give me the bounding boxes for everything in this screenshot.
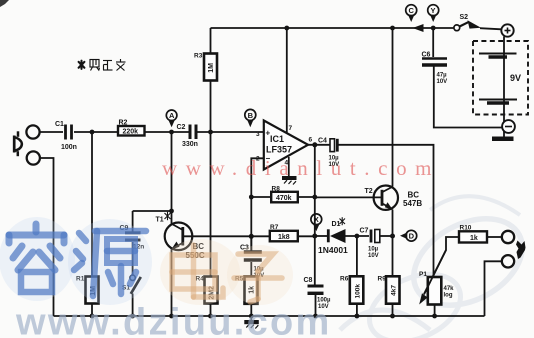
svg-text:1M: 1M <box>90 286 97 296</box>
output jack bottom circle <box>502 255 514 267</box>
svg-text:R9: R9 <box>378 276 387 283</box>
resistor R10 <box>459 231 487 242</box>
junction C1/R1/R2 <box>90 130 95 135</box>
wire node Y / C6 top <box>432 28 434 57</box>
svg-text:R6: R6 <box>340 276 349 283</box>
svg-text:LF357: LF357 <box>266 145 292 155</box>
capacitor C9 <box>125 233 141 240</box>
svg-text:R4: R4 <box>196 276 205 283</box>
watermark blue char 容 <box>9 224 64 292</box>
junction node A R2/C2/T1 collector <box>169 130 174 135</box>
junction R6/ground rail <box>355 314 360 319</box>
ground symbol below R5 <box>245 316 258 329</box>
wire input jack top to C1 <box>40 131 64 133</box>
svg-text:1M: 1M <box>208 63 215 73</box>
output arrow <box>516 241 526 260</box>
watermark blue char 源 <box>74 231 146 296</box>
svg-text:R3: R3 <box>194 53 203 60</box>
junction R5/ground rail <box>249 314 254 319</box>
junction R8/T2 base <box>312 195 317 200</box>
input jack arrow <box>14 131 22 156</box>
wire T1 collector up to node A <box>171 132 173 224</box>
wire bottom jack to ground rail <box>40 158 54 316</box>
resistor R5 <box>245 276 258 303</box>
junction T1 emitter/ground rail <box>169 314 174 319</box>
svg-text:R1: R1 <box>76 276 85 283</box>
op-amp pin4 wire and ground <box>288 157 290 177</box>
node B marker <box>245 109 256 127</box>
wire P1 bottom to rail <box>434 305 436 317</box>
battery ground bar <box>492 137 514 142</box>
wire P1 wiper to R10 <box>424 237 462 294</box>
node C marker <box>406 5 417 22</box>
svg-text:B: B <box>248 111 254 120</box>
wire R3 top <box>210 28 212 54</box>
watermark tan char 子 <box>234 254 282 302</box>
svg-text:2M2: 2M2 <box>209 286 216 300</box>
corner mark <box>0 0 9 7</box>
capacitor C3 <box>244 252 262 260</box>
battery cell 2 <box>479 100 517 104</box>
wire op-amp pin 7 to supply <box>286 28 288 134</box>
svg-text:T1: T1 <box>156 217 164 224</box>
watermark tan char 电 <box>172 245 223 297</box>
wire R6 top branch <box>356 236 358 276</box>
svg-text:C8: C8 <box>304 277 313 284</box>
battery cell 1 <box>479 54 517 58</box>
transistor T1 BC550C <box>165 223 193 251</box>
wire C7 right to T2 emitter <box>381 235 393 237</box>
capacitor C4 <box>330 139 337 152</box>
resistor R1 <box>86 277 99 304</box>
svg-text:T2: T2 <box>365 188 373 195</box>
svg-text:47µ: 47µ <box>437 73 448 79</box>
svg-text:4k7: 4k7 <box>391 285 398 296</box>
capacitor C1 <box>66 125 72 140</box>
footnote star <box>79 61 85 69</box>
svg-text:log: log <box>444 293 453 299</box>
wire R2 to C2 <box>145 131 189 133</box>
svg-text:C9: C9 <box>120 225 129 232</box>
svg-text:6: 6 <box>309 137 313 144</box>
svg-text:C4: C4 <box>318 138 327 145</box>
junction T2 collector/supply rail <box>390 26 395 31</box>
node A marker <box>166 110 177 127</box>
node X marker <box>311 214 322 231</box>
ground rail <box>54 315 485 317</box>
svg-text:10V: 10V <box>329 162 340 168</box>
svg-text:C: C <box>409 6 415 15</box>
input jack bottom circle <box>27 151 40 164</box>
wire battery internal column <box>503 37 505 138</box>
svg-text:1k8: 1k8 <box>278 234 290 241</box>
svg-text:2: 2 <box>256 156 260 163</box>
junction S1/ground rail <box>130 314 135 319</box>
capacitor C8 <box>308 286 324 293</box>
svg-text:R8: R8 <box>272 186 281 193</box>
diode D1 <box>328 229 345 243</box>
resistor R6 <box>350 276 364 303</box>
resistor R7 <box>270 231 298 242</box>
wire C6 bottom to battery minus <box>434 67 504 128</box>
svg-text:10µ: 10µ <box>254 267 265 273</box>
battery plus terminal <box>501 24 513 36</box>
wire R5 bottom to rail <box>250 304 252 316</box>
watermark blue glow patches <box>0 217 293 305</box>
wire S1 bottom to rail <box>132 294 134 317</box>
wire C9 bottom to S1 <box>132 242 134 275</box>
svg-text:10V: 10V <box>318 304 329 310</box>
svg-text:1k: 1k <box>249 286 256 294</box>
svg-text:220k: 220k <box>123 129 139 136</box>
svg-text:BC: BC <box>193 242 205 251</box>
svg-text:7: 7 <box>289 125 293 132</box>
junction D1 anode/R6 <box>355 234 360 239</box>
junction C9/T1 collector line <box>169 209 174 214</box>
wire D1 anode to C7 <box>346 235 370 237</box>
wire T2 base <box>315 196 382 198</box>
wire C8 top <box>314 236 316 285</box>
svg-text:1N4001: 1N4001 <box>318 245 348 255</box>
node C arrowhead on wire <box>413 24 424 32</box>
input jack top circle <box>26 125 39 138</box>
wire C9 branch horizontal <box>133 210 172 212</box>
svg-text:S1: S1 <box>122 285 130 292</box>
svg-text:R10: R10 <box>460 225 472 232</box>
svg-text:R2: R2 <box>119 119 128 126</box>
wire T2 collector to supply <box>392 28 394 187</box>
svg-text:10µ: 10µ <box>329 156 340 162</box>
node Y marker <box>428 5 439 22</box>
svg-text:D1: D1 <box>332 221 341 228</box>
wire R3 bottom to node, down to R4, R4 to rail <box>210 81 212 133</box>
junction C8/ground rail <box>313 314 318 319</box>
resistor R4 <box>205 277 218 304</box>
svg-text:4: 4 <box>285 160 289 167</box>
svg-text:470k: 470k <box>276 195 292 202</box>
junction node Y C6/supply rail <box>431 26 436 31</box>
svg-text:R5: R5 <box>235 276 244 283</box>
resistor R2 <box>118 126 145 136</box>
wire output column down <box>314 145 316 236</box>
junction R4/ground rail <box>208 314 213 319</box>
wire R8 right <box>298 196 315 198</box>
svg-text:A: A <box>169 111 175 120</box>
svg-text:−: − <box>266 154 271 163</box>
op-amp IC1 LF357 <box>264 121 308 170</box>
node D marker <box>400 230 417 241</box>
svg-text:100n: 100n <box>61 144 77 151</box>
svg-text:C6: C6 <box>422 52 431 59</box>
junction T1 base/R7/C3 <box>249 234 254 239</box>
wire S2 to battery plus <box>480 28 501 29</box>
resistor R8 <box>271 192 298 203</box>
wire R8 left <box>251 196 271 198</box>
battery minus terminal <box>502 120 515 133</box>
svg-text:C7: C7 <box>360 228 369 235</box>
svg-text:10V: 10V <box>437 79 448 85</box>
wire rail right end up to output jack bottom <box>485 261 502 316</box>
resistor R3 <box>204 54 217 81</box>
svg-text:100k: 100k <box>355 284 362 299</box>
svg-text:S2: S2 <box>460 14 469 21</box>
junction pin7/supply rail <box>284 26 289 31</box>
junction R3/R4/pin3 <box>208 130 213 135</box>
svg-text:X: X <box>314 215 319 224</box>
wire C3 top <box>250 236 252 250</box>
junction node D C7/T2 emitter/R9 <box>390 234 395 239</box>
wire D1 left <box>315 235 327 237</box>
wire C2 to op-amp pin 3 <box>198 131 264 133</box>
wire op-amp pin 2 to feedback column <box>251 158 263 250</box>
svg-text:Y: Y <box>431 6 436 15</box>
switch S2 <box>454 25 460 31</box>
svg-text:P1: P1 <box>419 271 427 278</box>
junction P1/ground rail <box>432 314 437 319</box>
wire C3 bottom to R5 <box>250 262 252 276</box>
resistor R9 <box>386 276 400 303</box>
svg-text:550C: 550C <box>186 251 205 260</box>
output jack top circle <box>502 231 514 243</box>
svg-text:C2: C2 <box>177 124 186 131</box>
junction pin2/R8 left <box>249 195 254 200</box>
transistor T2 BC547B <box>374 186 398 210</box>
capacitor C2 <box>190 125 196 140</box>
svg-text:9V: 9V <box>510 73 521 83</box>
svg-text:100µ: 100µ <box>317 298 331 304</box>
svg-text:C1: C1 <box>55 121 64 128</box>
wire op-amp output to C4 <box>308 144 330 146</box>
wire R7 right <box>298 235 315 237</box>
wire R10 right to output jack <box>487 236 502 238</box>
wire C9 top <box>132 211 134 232</box>
battery 9V dashed box <box>473 41 528 115</box>
ghost watermark outlines bottom right <box>340 196 534 338</box>
junction node X R7/D1/C8 <box>312 234 317 239</box>
wire T2 emitter down through R9 <box>392 210 394 277</box>
junction R1/ground rail <box>90 314 95 319</box>
top supply rail <box>211 27 457 29</box>
wire T1 base to feedback node <box>184 235 251 237</box>
wire T1 emitter to rail <box>171 249 173 316</box>
wire C4 right to P1 top <box>339 145 434 277</box>
svg-text:D: D <box>409 232 415 241</box>
junction op-amp output/C4 <box>312 142 317 147</box>
svg-text:C3: C3 <box>240 245 249 252</box>
wire C8 bottom <box>315 295 317 316</box>
svg-text:10V: 10V <box>368 253 379 259</box>
svg-text:330n: 330n <box>182 141 198 148</box>
svg-text:10µ: 10µ <box>368 247 379 253</box>
wire R7 left <box>251 235 269 237</box>
switch S1 <box>130 275 135 280</box>
capacitor C6 <box>422 59 447 66</box>
svg-text:+: + <box>266 128 271 137</box>
wire R1 branch <box>91 132 93 277</box>
svg-text:R7: R7 <box>270 224 279 231</box>
footnote text 见正文 <box>90 59 126 71</box>
svg-text:547B: 547B <box>403 199 422 208</box>
wire C1 to R2 with node <box>74 131 118 133</box>
svg-text:1k: 1k <box>470 235 478 242</box>
svg-text:3: 3 <box>256 131 260 138</box>
svg-text:47k: 47k <box>444 286 455 292</box>
svg-text:12n: 12n <box>133 244 144 251</box>
svg-text:IC1: IC1 <box>270 134 284 144</box>
junction R9/ground rail <box>390 314 395 319</box>
capacitor C7 <box>371 230 380 243</box>
potentiometer P1 <box>428 277 442 305</box>
